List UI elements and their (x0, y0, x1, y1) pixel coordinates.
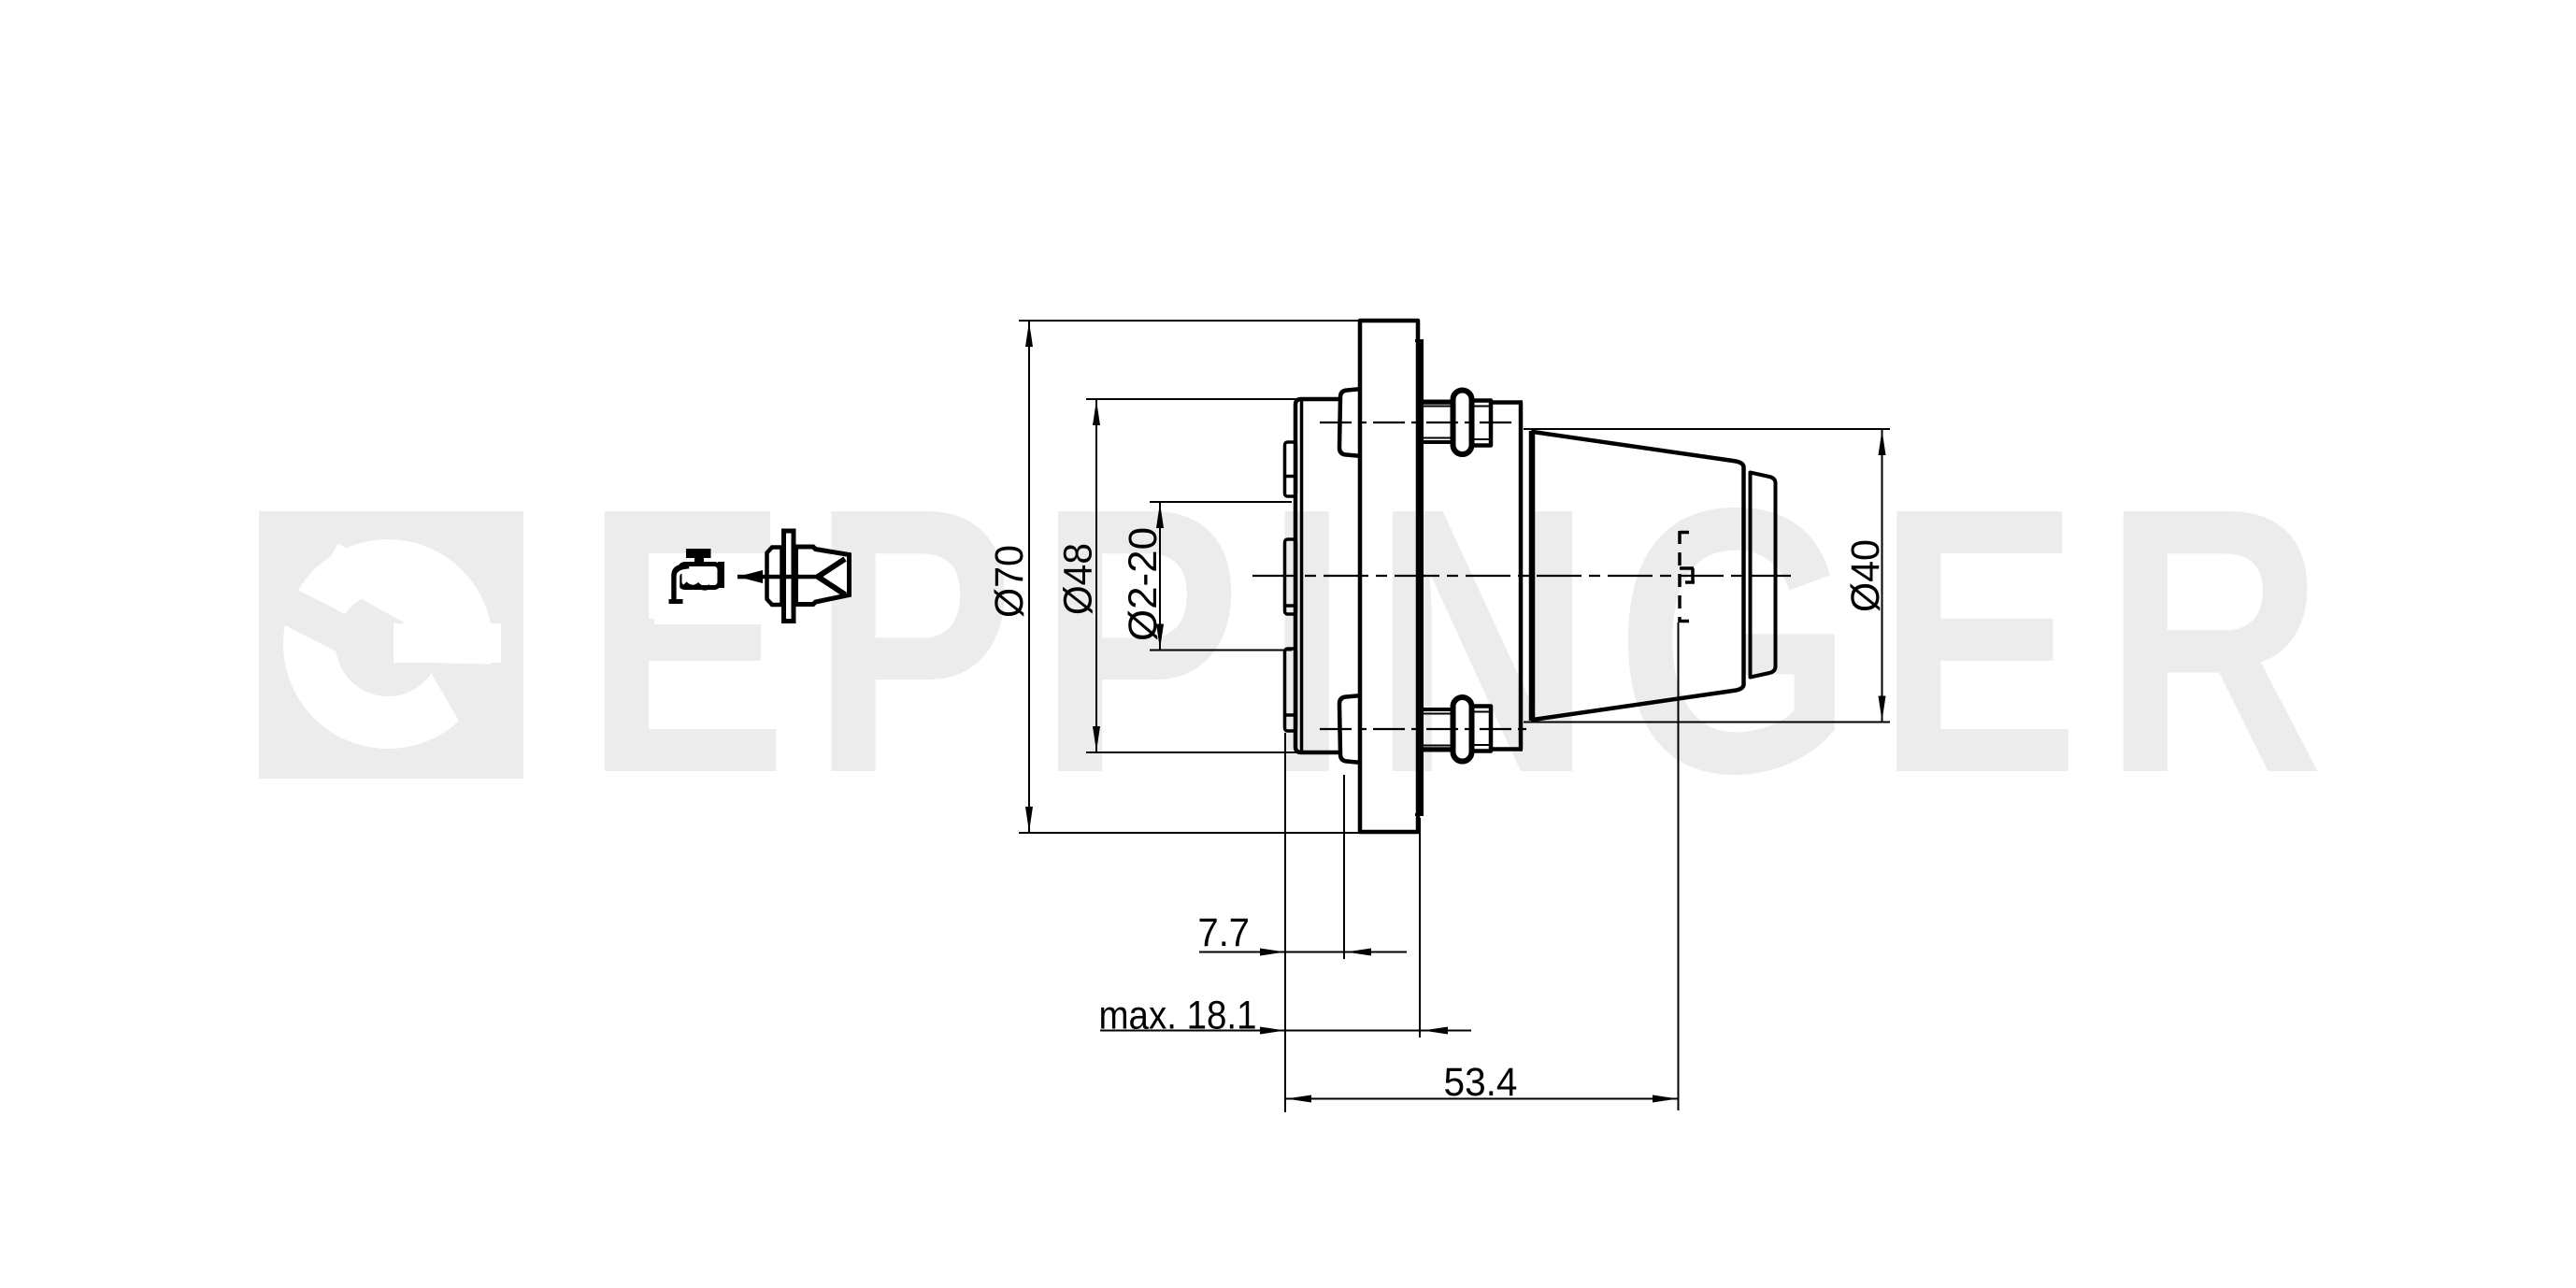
svg-text:Ø70: Ø70 (987, 545, 1032, 618)
body right face (1519, 403, 1524, 750)
mini chuck symbol (737, 531, 850, 622)
body chamfer line (1300, 401, 1304, 751)
svg-text:EPPINGER: EPPINGER (584, 429, 2347, 852)
dimension Ø48 (1095, 399, 1097, 752)
collet slot bump 2 (1285, 539, 1296, 614)
hidden contour (dashed) (1678, 531, 1682, 623)
white backing for coolant icon (654, 553, 762, 624)
cone (collet clamping nut) (1533, 432, 1744, 720)
chuck body (rear, left of flange) (1295, 399, 1340, 752)
stud thread lines (top) (1420, 400, 1453, 404)
svg-text:Ø48: Ø48 (1056, 543, 1101, 615)
mounting flange (1360, 321, 1418, 832)
svg-text:7.7: 7.7 (1198, 910, 1251, 955)
dimension Ø70 (1028, 321, 1030, 833)
body edge right of flange (top) (1420, 400, 1452, 405)
collet slot bump 1 (1285, 442, 1296, 496)
collet slot bump 3 (1285, 649, 1296, 731)
spherical washer capsule (bottom) (1453, 697, 1472, 762)
body edge right of flange (bottom) (1420, 747, 1452, 751)
dimension Ø2-20 (1159, 502, 1161, 651)
svg-text:Ø40: Ø40 (1843, 539, 1888, 612)
bolt axis centerline (top) (1320, 422, 1516, 423)
bolt head washer (top) (1339, 389, 1362, 456)
clamping nut (top) (1472, 401, 1492, 446)
sleeve sliver behind flange (1419, 340, 1424, 815)
dimension 7.7 (1199, 952, 1407, 953)
bolt axis centerline (bottom) (1320, 728, 1533, 730)
clamping nut (bottom) (1472, 707, 1492, 751)
svg-text:max. 18.1: max. 18.1 (1099, 994, 1257, 1038)
cone back face (1529, 431, 1534, 721)
dimension 53.4 (1286, 1098, 1678, 1100)
svg-text:Ø2-20: Ø2-20 (1121, 527, 1166, 641)
svg-text:53.4: 53.4 (1444, 1060, 1518, 1105)
dimension max. 18.1 (1100, 1030, 1471, 1032)
coolant faucet icon (669, 549, 725, 604)
watermark logo square (259, 511, 523, 779)
nose cap (1751, 473, 1776, 678)
spherical washer capsule (top) (1453, 391, 1472, 455)
coolant flow arrow (737, 570, 763, 583)
bolt head washer (bottom) (1339, 695, 1362, 763)
dimension Ø40 (1882, 429, 1883, 723)
stud thread lines (bottom) (1420, 749, 1453, 752)
main centerline (1252, 575, 1791, 577)
